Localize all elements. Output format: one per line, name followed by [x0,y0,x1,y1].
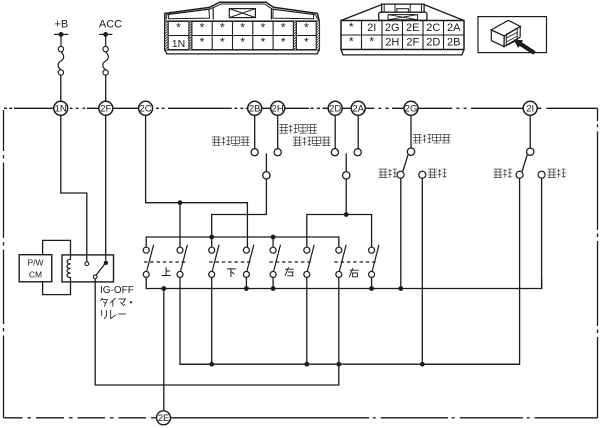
switch RIGHT-R contacts and lever [369,245,379,278]
wire column 8 stub to bottom bus [371,278,373,289]
label IG-OFF timer relay [100,285,134,319]
svg-text:2G: 2G [385,22,400,34]
wire bottom rail left of 2E (dash-dot) [4,417,157,419]
contact 2D [331,149,338,156]
svg-text:2I: 2I [526,104,534,115]
wire node 2D to contact [334,115,336,149]
svg-text:2B: 2B [447,36,460,48]
wire right border (dash-dot, to other page) [597,108,599,418]
wire node 1N to relay contact [61,115,87,261]
contact 2A [354,149,361,156]
contact 2I kakuno [538,171,545,178]
node 2H [271,101,285,115]
switch pole 2G circle [407,148,414,155]
svg-text:*: * [281,35,286,49]
svg-text:*: * [349,20,354,34]
contact 2G fukki [397,171,404,178]
svg-text:2F: 2F [406,36,419,48]
svg-text:*: * [281,21,286,35]
wire node 2F to relay contact [105,115,107,260]
wire 2C rail drop to column 2 [179,203,181,247]
svg-text:*: * [220,21,225,35]
svg-text:*: * [261,35,266,49]
svg-text:2E: 2E [406,22,419,34]
wire 2I fukki to junction line [422,178,519,364]
switch UP-L contacts and lever [143,245,153,278]
wire column 3 to junction line [211,278,213,365]
junction bottom bus column 4 [244,286,249,291]
svg-text:*: * [220,35,225,49]
junction top bus column 5 [271,235,276,240]
wire P/W CM bottom loop to relay coil [43,282,71,295]
power ACC fusible link to node 2F [99,18,122,101]
svg-text:*: * [304,21,309,35]
svg-text:1N: 1N [55,104,67,115]
wire bottom bus to node 2E [163,289,165,411]
wire 2D/2A rail to column 8 [346,215,371,248]
junction line column 7 [336,362,341,367]
svg-text:2H: 2H [385,36,399,48]
wire relay contact to lower rail [95,279,339,385]
wire node 2A to contact [357,115,359,149]
switch pole 2I circle [527,148,534,155]
wire bottom bus of switch bank [146,278,541,289]
svg-text:2B: 2B [249,104,261,115]
mechanical link RIGHT pair [334,261,376,263]
svg-text:2D: 2D [329,104,341,115]
svg-text:IG-OFF: IG-OFF [100,285,134,296]
wire top bus of switch bank [146,237,339,247]
node 2G [404,101,418,115]
wire bottom rail right of 2E (dash-dot) [171,417,598,419]
switch pole 2B/2H lever [265,153,267,171]
connector 1N pin table [165,2,319,54]
wire node 2H to contact [277,115,279,149]
svg-text:*: * [200,21,205,35]
connector 2x pin table [341,4,464,55]
node 2C [139,101,153,115]
svg-text:2G: 2G [405,104,418,115]
switch LEFT-L contacts and lever [270,245,280,278]
svg-text:2F: 2F [100,104,111,115]
junction bottom bus column 8 [369,286,374,291]
label driver side (2H) [279,125,288,134]
wire junction line [180,363,520,365]
contact 2I fukki [516,171,523,178]
svg-text:2H: 2H [272,104,284,115]
svg-text:P/W: P/W [27,257,43,267]
label kakuno (2G) [428,169,437,178]
junction top bus column 3 [209,235,214,240]
node 2A [351,101,365,115]
wire column 6 to junction line [306,278,308,365]
svg-text:CM: CM [29,269,42,279]
node 2E [157,411,171,425]
wire top bus stub column 3 [211,237,213,247]
svg-text:1N: 1N [172,38,185,50]
node 2F [99,101,113,115]
wire 2B/2H pole to top bus [212,179,267,235]
switch RIGHT-L contacts and lever [336,245,346,278]
contact 2G kakuno [419,171,426,178]
label DOWN [227,269,236,277]
switch pole 2B/2H circle [263,172,270,179]
wire node 2C rail to switches [146,115,248,247]
svg-text:*: * [176,21,181,35]
svg-text:*: * [240,21,245,35]
connector harness view icon [478,17,547,55]
svg-text:2C: 2C [426,22,440,34]
switch 2I lever [522,155,527,172]
switch pole 2D/2A circle [343,172,350,179]
wire column 7 to junction line [338,278,340,365]
switch DOWN-L contacts and lever [209,245,219,278]
switch 2G lever [403,155,408,172]
node 2B [248,101,262,115]
svg-text:2E: 2E [158,413,170,424]
label driver side (2G) [413,134,422,143]
label fukki (2I) [494,169,503,178]
svg-text:2C: 2C [140,104,152,115]
mechanical link DOWN pair [209,261,250,263]
svg-text:*: * [369,34,374,48]
wire top bus stub column 5 [272,237,274,247]
wire left border (dash-dot, to other page) [3,110,5,418]
label RIGHT [349,268,358,277]
switch LEFT-R contacts and lever [304,245,314,278]
wire P/W CM top loop to relay coil [43,240,71,255]
svg-text:*: * [261,21,266,35]
svg-text:2A: 2A [352,104,364,115]
label passenger side (2B) [212,137,221,146]
contact 2H [274,149,281,156]
svg-text:*: * [200,35,205,49]
junction 2D/2A pole rail [344,212,349,217]
node 2I [523,101,537,115]
junction bottom bus 2G fukki [398,286,403,291]
wire column 5 stub to bottom bus [272,278,274,289]
svg-text:2D: 2D [426,36,440,48]
junction bottom bus column 5 [271,286,276,291]
svg-text:*: * [240,35,245,49]
P/W CM module [19,255,52,282]
label kakuno (2I) [547,169,556,178]
wire 2D/2A pole down [345,179,347,215]
mechanical link UP pair [144,261,186,263]
junction line column 3 [209,362,214,367]
contact 2B [251,149,258,156]
node 2D [328,101,342,115]
svg-text:2I: 2I [367,22,376,34]
node 1N [54,101,68,115]
relay U1 IG-OFF timer (coil and contact) [62,255,114,282]
svg-text:*: * [349,34,354,48]
wire 2G fukki to bottom bus [400,178,402,288]
wire node 2G to pole [410,115,412,148]
label UP [162,267,171,275]
wire node 2B to contact [254,115,256,149]
label fukki (2G) [379,169,388,178]
junction line column 6 [304,362,309,367]
wire column 2 to junction line [180,278,212,365]
wire 2D/2A rail to column 6 [307,215,346,248]
label passenger side (2D) [293,137,302,146]
power +B fusible link to node 1N [54,18,68,101]
wire 2G kakuno to junction line [421,178,423,364]
mechanical link LEFT pair [269,261,311,263]
wire column 4 stub to bottom bus [245,278,247,289]
junction bottom bus to 2E [161,286,166,291]
switch DOWN-R contacts and lever [243,245,253,278]
svg-text:+B: +B [54,18,68,30]
switch pole 2D/2A lever [345,153,347,171]
svg-text:*: * [304,35,309,49]
wire top rail (dash-dot bus through connector nodes) [4,107,598,109]
svg-text:ACC: ACC [99,18,122,30]
junction line 2G kakuno [420,362,425,367]
label LEFT [285,267,294,276]
junction 2C rail to column 2 [178,200,183,205]
wire 2I kakuno to bottom bus [541,178,543,288]
wire node 2I to pole [529,115,531,148]
switch UP-R contacts and lever [177,245,187,278]
svg-text:2A: 2A [447,22,461,34]
